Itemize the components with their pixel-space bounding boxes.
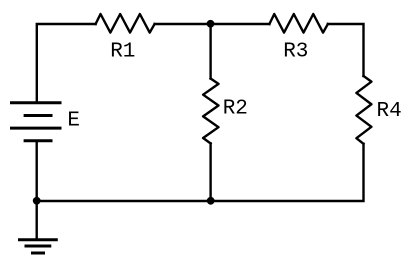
battery E plate short bottom	[24, 139, 53, 142]
battery E plate long	[10, 127, 62, 130]
ground bar 3	[31, 252, 45, 255]
node junction top	[207, 20, 215, 28]
wire	[209, 24, 211, 79]
wire	[211, 23, 270, 25]
ground bar 2	[25, 245, 52, 248]
wire	[36, 141, 38, 201]
svg-text:E: E	[67, 110, 80, 133]
battery E plate long top	[10, 101, 62, 104]
node junction bottom middle	[207, 197, 215, 205]
wire	[36, 201, 38, 239]
wire	[37, 24, 96, 102]
node junction bottom left	[33, 197, 41, 205]
resistor R3	[269, 14, 328, 33]
resistor R2	[203, 79, 218, 144]
wire	[211, 144, 364, 201]
svg-text:R4: R4	[377, 100, 402, 123]
ground bar 1	[18, 238, 58, 241]
battery E plate short	[24, 114, 53, 117]
wire	[155, 23, 211, 25]
svg-text:R2: R2	[223, 97, 248, 120]
svg-text:R3: R3	[283, 41, 308, 64]
wire	[37, 200, 211, 202]
wire	[209, 143, 211, 201]
wire	[328, 24, 364, 76]
resistor R4	[356, 76, 371, 144]
svg-text:R1: R1	[110, 41, 135, 64]
resistor R1	[96, 14, 155, 33]
